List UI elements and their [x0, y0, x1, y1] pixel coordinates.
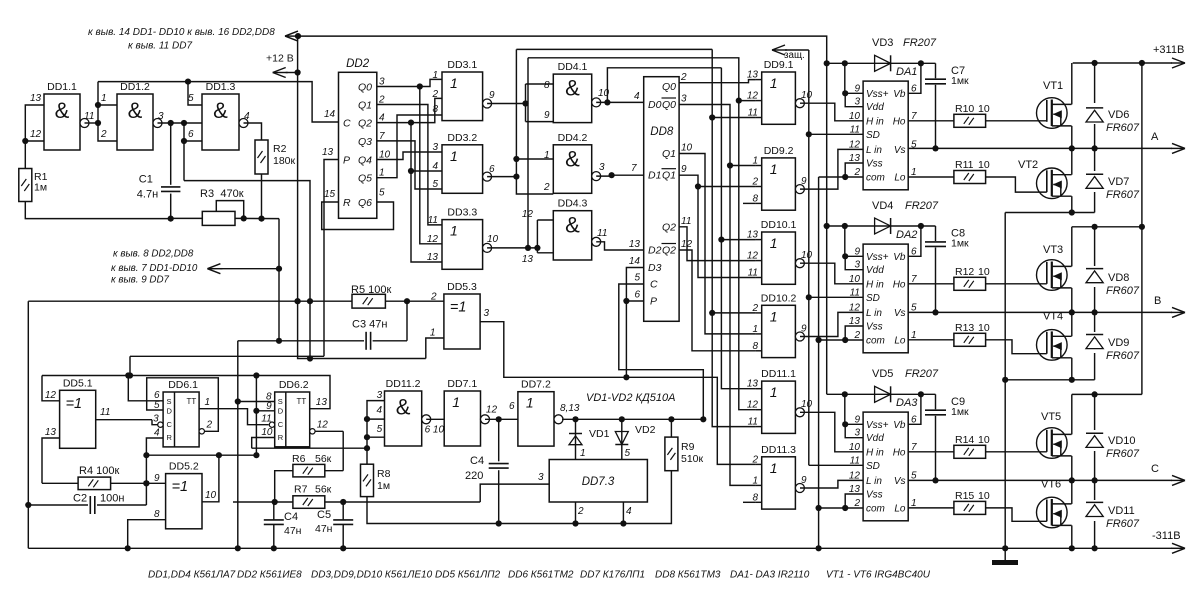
svg-text:Vdd: Vdd	[866, 265, 884, 276]
wire Q2 riser	[411, 123, 442, 262]
wire +12V DA vertical	[826, 63, 828, 394]
wire DD6.1 R	[146, 438, 163, 505]
wire row 455 to DD6.2 D	[146, 454, 256, 456]
wire ground pins arrow	[207, 268, 222, 270]
wire protection row to R9	[499, 471, 672, 524]
wire VT1 drain	[1071, 63, 1073, 104]
wire Q0 out row	[679, 80, 756, 83]
wire VT2 source row	[1005, 212, 1094, 214]
gate DD7.1	[444, 391, 480, 446]
svg-text:C: C	[650, 279, 658, 291]
wire DD6.1 out1 to DD6.2 C	[199, 409, 269, 425]
svg-text:Q0: Q0	[662, 99, 676, 111]
resistor R6	[293, 464, 325, 477]
svg-text:Vb: Vb	[893, 420, 906, 431]
svg-text:9: 9	[544, 110, 550, 121]
svg-text:DD3.2: DD3.2	[447, 132, 477, 144]
svg-text:11: 11	[681, 216, 691, 227]
wire R5 row	[28, 300, 352, 302]
svg-text:220: 220	[465, 470, 483, 482]
svg-text:C5: C5	[317, 509, 331, 521]
wire R3 wiper	[216, 201, 243, 219]
wire com chain vertical	[818, 177, 820, 548]
svg-text:com: com	[866, 504, 885, 515]
wire Q2 out row to v1	[679, 227, 756, 261]
wire DD7.3 pin3	[480, 484, 549, 502]
svg-text:R7: R7	[294, 484, 308, 496]
wire DD6.2 out12	[315, 430, 343, 432]
svg-text:470к: 470к	[220, 188, 243, 200]
wire R2 top feed	[244, 123, 262, 140]
svg-text:Vss+: Vss+	[866, 420, 889, 431]
capacitor C2	[28, 504, 88, 506]
resistor R3 trimmer	[202, 211, 235, 225]
svg-text:10: 10	[801, 399, 813, 410]
svg-text:2: 2	[680, 72, 687, 83]
svg-text:3: 3	[158, 111, 164, 122]
gate DD5.3	[444, 294, 480, 349]
wire VT3 source	[1071, 288, 1073, 313]
gate DD9.2	[762, 158, 796, 210]
svg-text:10: 10	[801, 250, 813, 261]
svg-text:3: 3	[377, 390, 383, 401]
wire DD11.1 out to DA3 Hin	[800, 412, 863, 452]
capacitor C7	[935, 63, 937, 148]
svg-text:TT: TT	[187, 397, 197, 406]
counter DD2	[339, 72, 377, 218]
svg-text:VD3: VD3	[872, 37, 893, 49]
svg-text:&: &	[396, 395, 411, 420]
wire v3 vertical	[712, 49, 755, 426]
svg-text:1: 1	[770, 308, 778, 324]
svg-text:1: 1	[770, 460, 778, 476]
resistor R13	[954, 333, 986, 346]
svg-text:10: 10	[978, 322, 990, 334]
svg-text:10: 10	[978, 266, 990, 278]
wire nQ2 out row	[679, 250, 756, 351]
svg-text:5: 5	[432, 179, 438, 190]
svg-text:4: 4	[634, 91, 640, 102]
svg-text:6 10: 6 10	[425, 425, 445, 436]
wire VT1 source	[1071, 126, 1073, 148]
wire +12V distribution arrow	[285, 35, 298, 37]
svg-text:DD11.2: DD11.2	[386, 378, 421, 390]
wire DD7.3 pin4	[622, 502, 624, 524]
svg-text:к выв. 7 DD1-DD10: к выв. 7 DD1-DD10	[111, 263, 198, 274]
svg-text:Vss+: Vss+	[866, 89, 889, 100]
svg-text:3: 3	[484, 308, 490, 319]
svg-text:4: 4	[376, 405, 382, 416]
svg-text:C1: C1	[139, 173, 153, 185]
wire R14 to VT5 gate	[986, 451, 1047, 453]
wire DD9.1 out to DA1 Hin	[800, 103, 863, 121]
gate DD11.2	[385, 391, 422, 446]
svg-text:R15: R15	[955, 490, 974, 502]
svg-text:D1: D1	[648, 170, 661, 182]
ground symbol	[1004, 548, 1006, 560]
diode VD3	[827, 62, 936, 64]
svg-text:&: &	[55, 98, 70, 123]
svg-text:VD5: VD5	[872, 368, 893, 380]
wire R12 to VT3 gate	[986, 283, 1047, 285]
svg-text:Q2: Q2	[358, 118, 372, 130]
resistor R7	[293, 496, 325, 509]
svg-text:47н: 47н	[284, 525, 302, 537]
wire left vertical x28	[27, 301, 29, 548]
svg-text:11: 11	[850, 124, 860, 135]
svg-text:9: 9	[801, 323, 807, 334]
svg-text:15: 15	[324, 189, 336, 200]
driver DA2	[863, 244, 908, 353]
wire DA1 Vss-com bracket	[845, 163, 863, 177]
svg-text:DD3.1: DD3.1	[447, 59, 477, 71]
wire row 448 to R8 net	[252, 447, 367, 449]
svg-text:&: &	[213, 98, 228, 123]
wire +311 right vertical	[1141, 63, 1143, 394]
svg-text:6: 6	[489, 164, 495, 175]
wire R2 bottom	[261, 174, 263, 219]
svg-text:DD4.3: DD4.3	[558, 198, 588, 210]
gate DD11.3	[762, 457, 796, 509]
wire Q4 row	[377, 152, 442, 160]
wire DD10.2 out to DA2 Lin	[800, 312, 863, 336]
wire DD6.1 D crosscouple from out2	[147, 378, 219, 432]
wire R4 row	[42, 482, 78, 484]
svg-text:TT: TT	[297, 397, 307, 406]
svg-text:R6: R6	[292, 453, 306, 465]
svg-text:14: 14	[324, 109, 336, 120]
svg-text:VT2: VT2	[1018, 159, 1038, 171]
svg-text:к выв. 8 DD2,DD8: к выв. 8 DD2,DD8	[113, 249, 194, 260]
svg-text:DA3: DA3	[896, 397, 918, 409]
svg-text:1мк: 1мк	[951, 238, 969, 250]
svg-text:11: 11	[597, 228, 607, 239]
svg-text:13: 13	[45, 427, 57, 438]
wire R15 to VT6 gate	[986, 508, 1047, 521]
svg-text:C: C	[167, 420, 173, 429]
svg-text:DD7.1: DD7.1	[447, 378, 477, 390]
svg-text:R11: R11	[955, 159, 974, 171]
wire DD3.3 net over the top	[528, 58, 756, 410]
svg-text:1: 1	[770, 161, 778, 177]
gate DD4.3	[553, 211, 591, 260]
wire v4 vertical	[721, 68, 755, 389]
svg-text:DD4.2: DD4.2	[558, 132, 588, 144]
svg-text:1м: 1м	[377, 480, 390, 492]
wire out12 to R6	[342, 431, 344, 470]
svg-text:10: 10	[205, 490, 217, 501]
node C1 bottom	[168, 216, 174, 222]
wire DA1 com to ground bus	[819, 176, 846, 178]
wire DD6.1 C from DD5.1	[152, 420, 158, 425]
svg-text:9: 9	[801, 475, 807, 486]
svg-text:C: C	[278, 420, 284, 429]
svg-text:VD4: VD4	[872, 200, 893, 212]
svg-text:L in: L in	[866, 145, 882, 156]
svg-text:R: R	[278, 433, 284, 442]
svg-text:47н: 47н	[315, 523, 333, 535]
svg-text:B: B	[1154, 295, 1161, 307]
svg-text:12: 12	[849, 139, 861, 150]
svg-text:VD8: VD8	[1108, 272, 1129, 284]
svg-text:12: 12	[522, 209, 534, 220]
diode VD1	[575, 419, 577, 459]
wire DD10.1 out to DA2 Hin	[800, 263, 863, 284]
svg-text:R14: R14	[955, 434, 974, 446]
svg-text:Vs: Vs	[894, 476, 906, 487]
svg-text:FR607: FR607	[1106, 189, 1140, 201]
svg-text:Q2: Q2	[662, 221, 676, 233]
svg-text:DD11.1: DD11.1	[761, 368, 796, 380]
svg-text:VT1 - VT6 IRG4BC40U: VT1 - VT6 IRG4BC40U	[826, 570, 931, 581]
svg-text:FR207: FR207	[903, 37, 937, 49]
wire Ho2 row	[908, 283, 954, 285]
svg-text:13: 13	[30, 93, 42, 104]
svg-text:DD10.2: DD10.2	[761, 292, 797, 304]
resistor R14	[954, 445, 986, 458]
svg-text:2: 2	[431, 89, 438, 100]
svg-text:1мк: 1мк	[951, 75, 969, 87]
svg-text:Q3: Q3	[358, 136, 372, 148]
svg-text:10: 10	[978, 159, 990, 171]
wire DD1.3 in6	[183, 123, 185, 181]
svg-text:FR207: FR207	[905, 368, 939, 380]
wire Ho1 row	[908, 120, 954, 122]
svg-text:5: 5	[188, 93, 194, 104]
svg-text:Vb: Vb	[893, 89, 906, 100]
svg-text:Lo: Lo	[894, 173, 906, 184]
wire R11 to VT2 gate	[986, 177, 1047, 192]
wire DA2 Vss+Vdd bracket	[845, 256, 863, 269]
resistor R11	[954, 171, 986, 184]
svg-text:H in: H in	[866, 116, 884, 127]
svg-text:Vss: Vss	[866, 490, 883, 501]
wire DD11.2 out	[426, 418, 444, 420]
wire VT6 drain	[1071, 480, 1073, 504]
diode VD10	[1094, 394, 1096, 480]
svg-text:R4 100к: R4 100к	[79, 465, 119, 477]
svg-text:R3: R3	[200, 188, 214, 200]
svg-text:=1: =1	[450, 300, 467, 316]
svg-text:2: 2	[543, 182, 550, 193]
wire VT3 drain	[1071, 227, 1073, 267]
wire DA3 Vss-com bracket	[845, 494, 863, 508]
svg-text:DD10.1: DD10.1	[761, 219, 797, 231]
svg-text:5: 5	[379, 188, 385, 199]
svg-text:Q4: Q4	[358, 155, 372, 167]
phase A row	[908, 147, 1172, 149]
svg-text:VD1: VD1	[589, 428, 610, 440]
svg-text:3: 3	[432, 142, 438, 153]
wire DD3.1 out to DD4.1	[487, 103, 525, 105]
svg-text:P: P	[650, 296, 657, 308]
svg-text:13: 13	[522, 254, 534, 265]
svg-text:DD2: DD2	[346, 58, 370, 70]
wire DD7.2 out row	[562, 418, 703, 420]
wire Q5 row	[377, 115, 442, 178]
wire zasch SD vertical	[808, 50, 810, 465]
svg-text:DD5 К561ЛП2: DD5 К561ЛП2	[435, 570, 500, 581]
svg-text:защ.: защ.	[784, 50, 805, 61]
capacitor C4-220	[498, 419, 500, 461]
wire VT4 source row	[1005, 379, 1094, 381]
gate DD1.1	[44, 94, 80, 150]
wire +12V arrow	[273, 72, 288, 74]
svg-text:VT3: VT3	[1043, 244, 1063, 256]
svg-text:&: &	[128, 98, 143, 123]
wire nQ1 out row to v2	[679, 175, 756, 277]
svg-text:6: 6	[188, 129, 194, 140]
wire DD2 P pin	[324, 160, 339, 357]
driver DA3	[863, 412, 908, 521]
svg-text:R10: R10	[955, 103, 974, 115]
gate DD9.1	[762, 72, 796, 124]
wire Q2 tap DD3.2 mid	[411, 170, 442, 172]
wire R13 to VT4 gate	[986, 340, 1047, 354]
svg-text:1: 1	[544, 150, 550, 161]
svg-text:1: 1	[526, 395, 534, 411]
svg-text:10: 10	[849, 111, 861, 122]
svg-text:1: 1	[432, 70, 438, 81]
svg-text:C4: C4	[470, 455, 484, 467]
svg-text:L in: L in	[866, 308, 882, 319]
svg-text:180к: 180к	[273, 155, 296, 167]
wire DD11.3 out to DA3 Lin	[800, 480, 863, 488]
svg-text:DD4.1: DD4.1	[558, 61, 588, 73]
node osc net on R5 row	[307, 298, 313, 304]
wire DA3 Vss+Vdd bracket	[845, 424, 863, 437]
svg-text:R2: R2	[273, 143, 287, 155]
wire R3 left	[171, 217, 203, 219]
wire DD3.3 net riser to top	[527, 58, 529, 248]
resistor R15	[954, 501, 986, 514]
svg-text:DA1: DA1	[896, 66, 917, 78]
block DD7.3	[549, 460, 647, 503]
svg-text:DD7.3: DD7.3	[582, 476, 615, 488]
svg-text:Vs: Vs	[894, 308, 906, 319]
svg-text:9: 9	[154, 473, 160, 484]
svg-text:4: 4	[154, 428, 160, 439]
svg-text:com: com	[866, 173, 885, 184]
svg-text:10: 10	[681, 143, 693, 154]
svg-text:Vss: Vss	[866, 322, 883, 333]
svg-text:3: 3	[681, 94, 687, 105]
wire DD6.1 S riser	[128, 376, 163, 401]
wire DD3.2 net riser to top	[516, 49, 553, 194]
svg-text:com: com	[866, 336, 885, 347]
wire DD6.2 R	[252, 438, 275, 449]
svg-text:3: 3	[153, 414, 159, 425]
svg-text:10: 10	[849, 442, 861, 453]
flipflop DD6.2	[275, 392, 310, 447]
capacitor C8	[935, 226, 937, 312]
wire Lo1 row	[908, 176, 954, 178]
svg-text:S: S	[278, 397, 283, 406]
svg-text:3: 3	[538, 472, 544, 483]
wire DA2 Vb riser	[908, 226, 921, 256]
svg-text:13: 13	[316, 397, 328, 408]
wire DD9.2 out to DA1 Lin	[800, 149, 863, 189]
svg-text:к выв. 11 DD7: к выв. 11 DD7	[128, 41, 192, 52]
svg-text:Ho: Ho	[893, 447, 906, 458]
gate DD1.2	[117, 94, 153, 150]
wire DD6.2 S from bus vertical	[238, 401, 275, 403]
wire DA1 Vb riser	[908, 63, 921, 93]
wire DD5.2 out	[202, 455, 219, 502]
svg-text:VD2: VD2	[635, 424, 656, 436]
wire nQ0 out row to v5	[679, 105, 756, 486]
wire DD2 R-Q6 loop	[322, 202, 394, 230]
wire Q0 riser	[420, 87, 442, 244]
gate DD3.2	[442, 145, 483, 194]
wire v6 taps	[739, 100, 756, 102]
gate DD1.3	[202, 94, 239, 150]
svg-text:C: C	[1151, 463, 1159, 475]
wire oscillator feedback row	[184, 181, 310, 359]
svg-text:&: &	[565, 146, 580, 171]
capacitor C3	[238, 340, 364, 342]
wire VT6 source	[1071, 525, 1073, 548]
gate DD5.1	[60, 390, 96, 448]
svg-text:12: 12	[849, 470, 861, 481]
wire R3 right	[235, 217, 279, 219]
svg-text:10: 10	[801, 90, 813, 101]
svg-text:Vb: Vb	[893, 252, 906, 263]
wire VT2 source	[1071, 196, 1073, 212]
svg-text:1: 1	[450, 223, 458, 239]
wire SD1 row	[809, 133, 863, 135]
wire DD1.1 out to DD1.2 inputs	[85, 122, 99, 124]
wire R1 top	[24, 141, 26, 169]
svg-text:5: 5	[377, 424, 383, 435]
svg-text:&: &	[565, 76, 580, 101]
svg-text:10: 10	[261, 427, 273, 438]
svg-text:DD6.1: DD6.1	[168, 379, 198, 391]
diode VD7	[1094, 148, 1096, 212]
svg-text:Vss+: Vss+	[866, 252, 889, 263]
diode VD9	[1094, 312, 1096, 379]
svg-text:D3: D3	[648, 262, 662, 274]
svg-text:D: D	[278, 406, 284, 415]
wire DD7.3 pin2	[575, 502, 577, 524]
wire v2 taps	[698, 186, 756, 188]
svg-text:Vdd: Vdd	[866, 102, 884, 113]
svg-text:DD5.1: DD5.1	[63, 377, 93, 389]
svg-text:56к: 56к	[315, 484, 332, 496]
wire DD3.2 out to DD4.2	[487, 176, 516, 178]
svg-text:+311В: +311В	[1153, 44, 1184, 56]
svg-text:10: 10	[978, 103, 990, 115]
svg-text:9: 9	[681, 164, 687, 175]
svg-text:P: P	[343, 155, 350, 167]
svg-text:4: 4	[626, 506, 632, 517]
svg-text:7: 7	[631, 163, 637, 174]
svg-text:DD5.2: DD5.2	[169, 461, 199, 473]
svg-text:A: A	[1151, 131, 1159, 143]
wire C top row	[1072, 393, 1142, 395]
svg-text:=1: =1	[172, 479, 189, 495]
svg-text:13: 13	[629, 239, 641, 250]
svg-text:C4: C4	[284, 511, 298, 523]
svg-text:2: 2	[100, 129, 107, 140]
wire R5 right	[385, 300, 444, 302]
wire C input to protection	[619, 284, 704, 419]
svg-text:Q1: Q1	[662, 170, 676, 182]
resistor R9	[665, 437, 678, 471]
svg-text:DA1- DA3 IR2110: DA1- DA3 IR2110	[730, 570, 810, 581]
resistor R2	[255, 140, 268, 174]
svg-text:4.7н: 4.7н	[137, 188, 158, 200]
